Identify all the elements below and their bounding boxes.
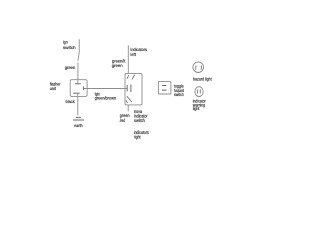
wire supply to ign switch: [78, 39, 80, 52]
svg-text:switch: switch: [63, 45, 76, 50]
svg-text:hazard light: hazard light: [193, 76, 212, 81]
svg-text:ign: ign: [63, 39, 68, 44]
indicator switch left terminal bar: [126, 85, 128, 91]
indicator switch lever bar: [130, 84, 132, 92]
svg-text:earth: earth: [74, 123, 83, 128]
label green /red: [120, 114, 130, 124]
flasher unit bottom terminal: [73, 92, 79, 94]
earth symbol: [73, 117, 84, 120]
wire green: ign switch to flasher unit: [77, 63, 79, 84]
svg-text:green: green: [112, 63, 124, 68]
svg-text:/red: /red: [120, 118, 125, 124]
label flasher unit: [50, 82, 61, 92]
svg-text:left: left: [130, 52, 136, 57]
svg-text:light: light: [193, 106, 200, 111]
hazard light lamp filament posts: [196, 65, 202, 69]
nova indicator switch box: [125, 73, 142, 105]
svg-text:unit: unit: [50, 86, 57, 91]
toggle hazard switch box: [158, 82, 171, 94]
flasher unit right terminal: [82, 86, 84, 90]
svg-text:switch: switch: [134, 118, 145, 124]
flasher unit top terminal: [75, 83, 81, 85]
label indicators left: [130, 47, 147, 57]
indicator warning lamp filament posts: [198, 89, 201, 93]
hazard light lamp: [193, 62, 204, 73]
flasher unit box: [70, 80, 87, 97]
wire green/lt green: indicators left feed: [127, 45, 129, 73]
wire green/red: indicator switch to indicators right: [127, 105, 129, 112]
ign switch S1 blade: [78, 53, 79, 61]
label light green/brown: [95, 91, 117, 100]
svg-text:green/brown: green/brown: [95, 96, 117, 101]
label ign switch: [63, 39, 76, 50]
wire black: flasher unit to earth: [77, 93, 79, 115]
toggle switch contact dashes: [162, 86, 167, 91]
svg-text:black: black: [66, 99, 76, 104]
label toggle hazard switch: [174, 84, 184, 98]
svg-text:switch: switch: [174, 92, 184, 97]
label indicators right: [134, 130, 149, 141]
indicator switch lower contact strokes: [126, 96, 132, 103]
svg-text:green: green: [65, 65, 76, 70]
label green/lt green: [112, 59, 126, 69]
wire light green/brown: flasher unit to indicator switch: [84, 88, 127, 90]
indicator warning lamp: [195, 87, 203, 97]
label nova indicator switch: [134, 110, 148, 124]
label indicator warning light: [193, 98, 206, 111]
svg-text:right: right: [134, 134, 141, 140]
indicator switch upper contact strokes: [127, 75, 135, 80]
